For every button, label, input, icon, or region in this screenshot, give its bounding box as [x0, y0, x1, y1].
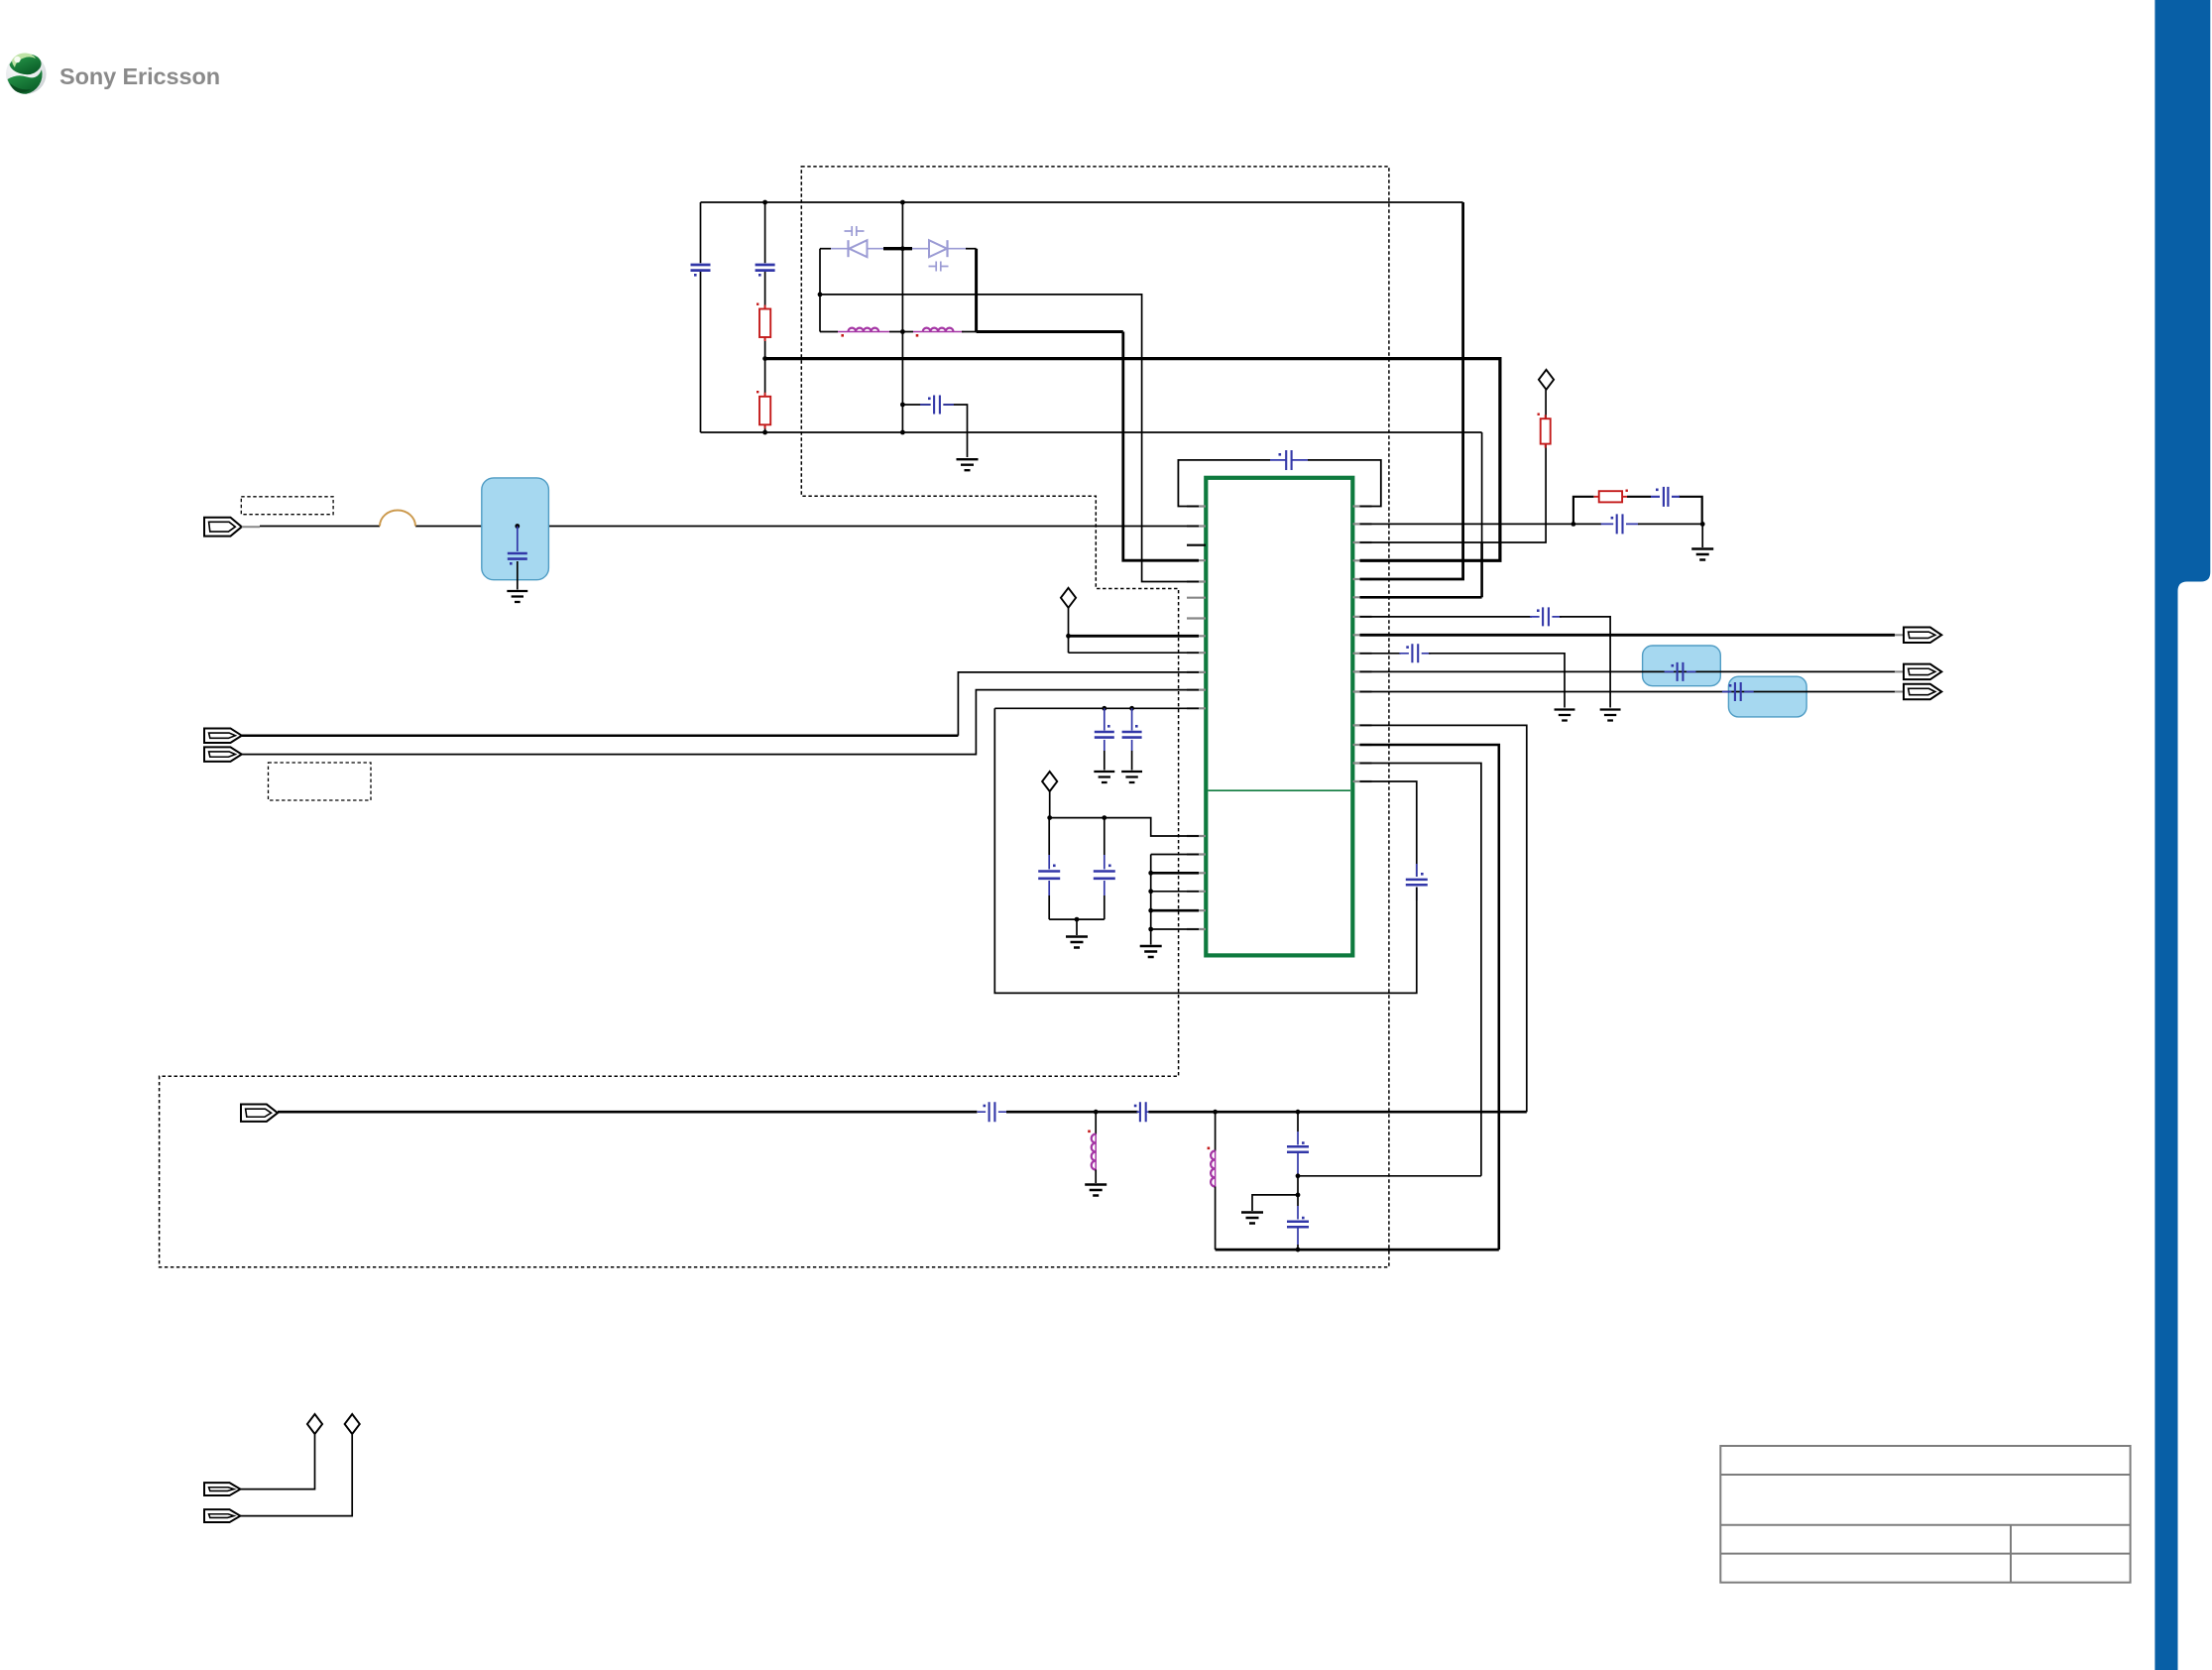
capacitor C10	[1617, 514, 1623, 534]
dashed label box 1	[241, 497, 333, 515]
wire pin547 riser	[1360, 444, 1547, 542]
dashed module boundary	[160, 167, 1389, 1267]
wire ground chain	[1151, 855, 1199, 945]
wire pin677 to J5	[1360, 670, 1896, 672]
capacitor C6	[1104, 708, 1106, 730]
wire R-chain vertical	[764, 202, 766, 432]
ground C6	[1094, 772, 1114, 782]
ground chain	[1140, 946, 1162, 957]
resistor R1	[759, 309, 770, 338]
wire chain tap 937	[1151, 928, 1199, 930]
wire pin584 thick	[1360, 202, 1463, 579]
wire J3	[242, 690, 1199, 755]
capacitor C13	[1412, 644, 1418, 662]
title block table	[1720, 1446, 2130, 1583]
junction dots cap feed	[1102, 706, 1106, 711]
wire P2 rail	[1050, 818, 1199, 836]
capacitor C2	[756, 265, 775, 271]
capacitor C12	[1543, 607, 1549, 626]
connector J3	[204, 747, 242, 762]
wire RF rail b	[1006, 1111, 1138, 1114]
wire drop x1133 to pin	[1123, 332, 1199, 561]
capacitor C15	[1735, 682, 1741, 701]
capacitor C14	[1678, 662, 1684, 681]
wire pin621 cap	[1360, 616, 1533, 618]
wire RF in	[260, 526, 1199, 528]
wire bottom rail to pin	[1360, 596, 1482, 599]
junction dot diode box	[818, 293, 823, 298]
wire pin769 drop	[1360, 764, 1481, 1176]
highlight box B2	[1643, 646, 1721, 686]
ground C7	[1121, 772, 1142, 782]
wire to ground C8C9	[1076, 919, 1078, 935]
junction dots chain1309	[1296, 1173, 1301, 1178]
junction dot RC B	[1700, 522, 1705, 527]
inductor L2	[923, 331, 954, 333]
capacitor C19	[1287, 1146, 1309, 1152]
wire VBATT top rail	[701, 201, 1463, 203]
wire pin640 to J4	[1360, 634, 1896, 637]
wire RC gnd lead	[1701, 524, 1703, 547]
capacitor C16	[1406, 880, 1428, 885]
wire diode box right	[975, 249, 978, 332]
wire chain tap 918	[1151, 909, 1199, 912]
ground cap C3	[957, 459, 979, 470]
wire inductor row thick	[977, 330, 1123, 333]
wire RF rail a	[278, 1111, 977, 1114]
ground spur	[1241, 1213, 1263, 1224]
connector J7	[241, 1105, 278, 1122]
diode D2	[946, 240, 948, 257]
wire J9	[240, 1435, 352, 1516]
wire pin658 to gnd	[1429, 654, 1565, 708]
junction dot P1	[1066, 634, 1071, 639]
connector J5	[1904, 664, 1941, 680]
wire chain tap 899	[1151, 891, 1199, 893]
connector J2	[204, 728, 242, 743]
capacitor C5	[1270, 459, 1308, 461]
wire pin697 to J6	[1360, 691, 1896, 693]
junction dot bus	[762, 356, 767, 361]
lead J5	[1895, 670, 1904, 672]
capacitor C11	[1651, 496, 1680, 498]
wire pin731 drop	[1360, 725, 1527, 1112]
capacitor C3	[934, 396, 940, 415]
wire node to pin769	[1298, 1175, 1481, 1177]
wire cap feed	[994, 707, 1199, 709]
port diamond P1	[1061, 588, 1076, 608]
wire diode box left	[819, 249, 821, 332]
wire P1 lead	[1068, 608, 1070, 653]
ground pin621	[1600, 710, 1621, 721]
wire L4 down	[1215, 1187, 1217, 1251]
dashed label box 2	[269, 763, 372, 800]
junction dots top rail	[762, 200, 767, 205]
ground L3	[1085, 1185, 1106, 1196]
wire C19 to node	[1297, 1152, 1299, 1174]
resistor R4	[1541, 418, 1551, 443]
connector J9	[204, 1509, 240, 1522]
ground C8C9	[1066, 937, 1088, 948]
wire cap loop	[1178, 460, 1270, 507]
highlight box B3	[1728, 676, 1806, 717]
wire cap C3 branch	[902, 405, 967, 457]
ground pin658	[1555, 710, 1575, 721]
diode D1	[847, 240, 849, 257]
capacitor mark D2	[929, 262, 949, 272]
wire bottom return rail	[1216, 1249, 1499, 1252]
wire VDD thick bus	[765, 359, 1500, 561]
connector J1	[204, 518, 242, 537]
connector J6	[1904, 684, 1941, 700]
ground RC	[1691, 549, 1713, 560]
wire pin751 drop	[1360, 745, 1499, 1250]
wire left vertical	[700, 202, 702, 432]
wire pin528 to RC	[1360, 523, 1602, 525]
port diamond P2	[1042, 772, 1057, 791]
IC U1 body	[1206, 478, 1352, 956]
wire pin788 cap drop	[1360, 781, 1417, 877]
junction dots RF rail	[1094, 1110, 1099, 1115]
lead J6	[1895, 691, 1904, 693]
wire J8	[240, 1435, 314, 1490]
junction dot RC A	[1572, 522, 1576, 527]
connector J8	[204, 1483, 240, 1495]
wire J2	[242, 734, 959, 737]
wire L3 lead	[1095, 1112, 1097, 1133]
capacitor C20	[1287, 1222, 1309, 1228]
inductor L3	[1095, 1134, 1097, 1170]
wire C20 down	[1297, 1228, 1299, 1245]
inductor L1	[848, 331, 878, 333]
resistor R3	[1599, 491, 1622, 502]
wire pin658 cap	[1360, 653, 1402, 655]
junction dots P2 rail	[1047, 815, 1052, 820]
wire RF rail c	[1148, 1111, 1526, 1114]
wire gnd spur	[1252, 1195, 1298, 1211]
wire center vertical	[901, 202, 903, 432]
wire C19 lead	[1297, 1112, 1299, 1132]
wire L4 lead	[1215, 1112, 1217, 1150]
junction dot RF in	[515, 524, 520, 529]
connector J4	[1904, 628, 1941, 644]
junction dots bottom rail	[762, 430, 767, 435]
wire RC upper branch	[1573, 497, 1594, 525]
capacitor mark D1	[845, 226, 865, 236]
highlight box B1	[482, 478, 549, 580]
IC pin stubs	[1187, 507, 1372, 930]
capacitor C8	[1048, 818, 1050, 855]
wire P2 lead	[1049, 791, 1051, 818]
wire diode row	[820, 248, 831, 250]
port diamond P5	[345, 1414, 360, 1434]
capacitor C4	[517, 527, 519, 552]
svg-text:Sony Ericsson: Sony Ericsson	[59, 63, 220, 89]
wire inductor row	[820, 331, 838, 333]
lead J4	[1895, 634, 1904, 636]
port diamond P3	[1539, 370, 1554, 390]
wire C20 lead	[1297, 1195, 1299, 1206]
wire P1 thick to pin	[1069, 635, 1200, 638]
port diamond P4	[307, 1414, 322, 1434]
junction dot C8C9	[1075, 917, 1080, 922]
capacitor C1	[691, 265, 711, 271]
ground C4	[507, 591, 527, 602]
wire C16 down	[994, 708, 1417, 993]
wire C8 C9 rail	[1049, 918, 1105, 920]
capacitor C7	[1131, 708, 1133, 730]
wire chain tap 880	[1151, 872, 1199, 875]
capacitor C9	[1104, 818, 1106, 855]
capacitor C17	[990, 1102, 995, 1122]
resistor R2	[759, 397, 770, 425]
wire pin621 to gnd	[1560, 617, 1610, 708]
wire P1 lower to pin	[1069, 652, 1200, 654]
blue side bar	[2154, 0, 2210, 1670]
ferrite hump	[380, 511, 415, 527]
IC U1 internal divider	[1209, 789, 1351, 791]
wire box out mid	[820, 295, 1199, 582]
inductor L4	[1215, 1151, 1217, 1187]
wire L3 gnd	[1095, 1170, 1097, 1184]
wire bottom rail	[701, 431, 1482, 433]
capacitor C18	[1140, 1102, 1146, 1122]
wire RC to gnd node	[1638, 523, 1702, 525]
junction dots chain	[1148, 871, 1153, 876]
label lead J1	[242, 526, 260, 528]
junction dots center vertical	[900, 246, 905, 251]
